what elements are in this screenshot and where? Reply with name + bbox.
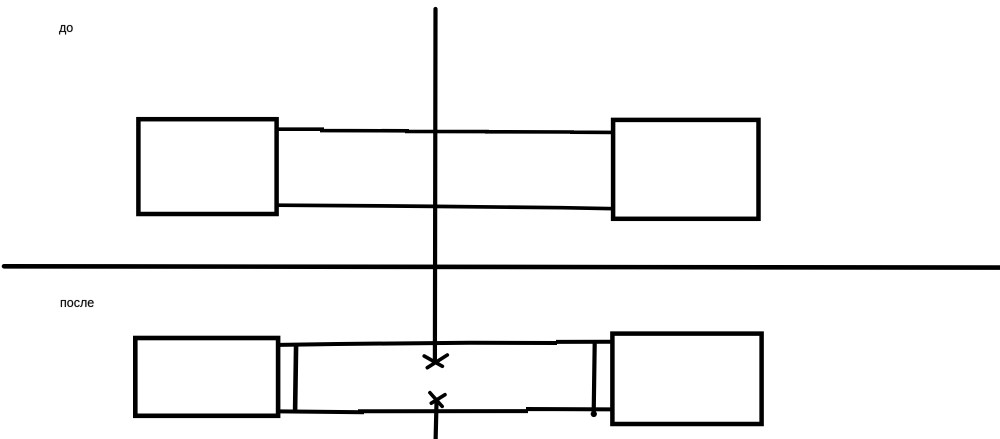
left block (до view) — [138, 119, 276, 214]
left tick mark (после view) — [295, 345, 296, 411]
left block (после view) — [135, 338, 278, 416]
X cut mark (upper, on centerline) — [424, 355, 447, 368]
horizontal divider line between views — [4, 266, 1000, 267]
label "до" (before) — [59, 22, 73, 35]
X cut mark (lower, on centerline) — [430, 393, 445, 407]
right block (после view) — [612, 334, 761, 424]
top connecting line (после view) — [280, 342, 612, 345]
top connecting line (до view) — [277, 129, 614, 132]
right tick mark (после view) — [591, 344, 597, 418]
vertical centerline (top, axis through both views) — [433, 9, 438, 359]
bottom connecting line (до view) — [277, 205, 614, 209]
label "после" (after) — [60, 297, 94, 310]
vertical centerline (bottom stub below lower X) — [436, 399, 437, 439]
right block (до view) — [613, 120, 758, 219]
bottom connecting line (после view) — [280, 409, 612, 412]
